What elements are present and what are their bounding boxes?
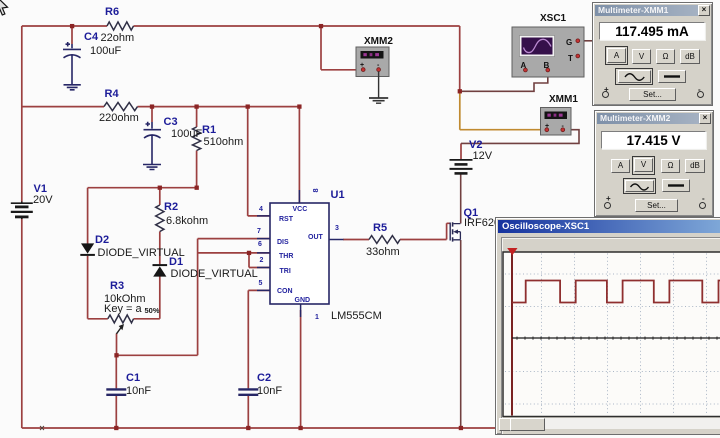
svg-text:8: 8 (311, 188, 320, 192)
